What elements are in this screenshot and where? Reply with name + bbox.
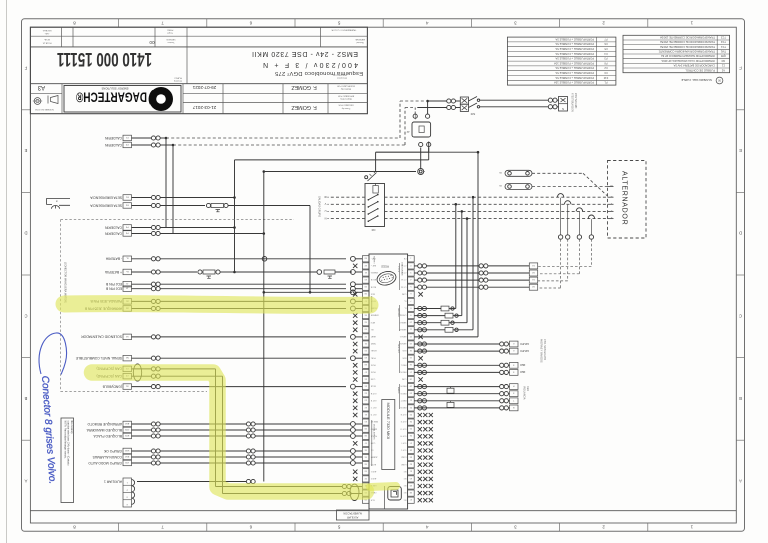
svg-text:BULB: BULB: [370, 385, 376, 387]
svg-text:PORTAFUSIBLE + FUSIBLE 5A: PORTAFUSIBLE + FUSIBLE 5A: [555, 47, 594, 51]
module left terminal 43: [362, 398, 369, 404]
module pin group bracket grupo: [399, 341, 401, 373]
svg-text:EMERG: EMERG: [370, 271, 377, 273]
frame zone tick left: [22, 357, 31, 359]
wire +bateria continuation to second fuse: [235, 271, 318, 273]
alternador pin U: [608, 210, 614, 212]
svg-text:F: F: [24, 66, 27, 71]
wire CALDERIN: [132, 233, 152, 235]
dashed wire PE1 to alternador diagonal: [532, 172, 583, 174]
module right terminal 61: [408, 469, 415, 475]
CAN bus vertical wire 1: [215, 369, 217, 487]
current transformer TC4 lead: [590, 219, 592, 235]
title block outline: [30, 27, 367, 114]
svg-text:MAINS: MAINS: [397, 387, 400, 394]
splice terminals GRUPO OK: [151, 449, 155, 453]
module right terminal not connected X: [418, 335, 422, 339]
wire ARRANQUE REMOTO: [132, 423, 152, 425]
svg-text:AUTO: AUTO: [370, 463, 376, 466]
splice terminals mid BLOQUEO PLACA: [246, 434, 250, 438]
svg-text:Modified by: Modified by: [341, 88, 351, 90]
module side splice SENAL NIVEL COMBUSTIBLE: [351, 356, 356, 361]
module left terminal 45: [362, 384, 369, 390]
module left terminal not connected X: [353, 349, 357, 353]
dashed wire calderin 1 to charger: [166, 137, 400, 139]
module left terminal 61: [362, 270, 369, 276]
red terminal box: [510, 362, 519, 368]
inline connector circles on feed wire: [418, 169, 424, 175]
current transformer TC4 dashed drop: [590, 239, 592, 267]
module left terminal 39: [362, 426, 369, 432]
wire - BATERIA: [132, 258, 152, 260]
red terminal box: [510, 370, 519, 376]
svg-text:B-: B-: [126, 257, 128, 259]
module left terminal 46: [362, 376, 369, 382]
svg-text:COM: COM: [402, 378, 407, 380]
alternador pin V: [608, 203, 614, 205]
module right terminal 5: [408, 284, 415, 290]
svg-text:Version: Version: [168, 41, 175, 43]
schematic bottom boundary line: [30, 510, 736, 512]
wire BLOQUEO PLACA: [132, 435, 152, 437]
splice terminals mid ARRANQUE REMOTO: [246, 422, 250, 426]
current transformer TC1 terminal: [558, 235, 562, 239]
CAN twisted pair loop at module: [350, 484, 359, 500]
svg-text:NOTA: Para realizar Arranque r: NOTA: Para realizar Arranque remoto,: [64, 421, 67, 459]
title block divider A3 column: [61, 84, 63, 114]
splice terminals CALDERIN: [151, 225, 155, 229]
module right terminal 27: [408, 440, 415, 446]
module right terminal 8: [408, 305, 415, 311]
contactor contact U: [368, 213, 370, 215]
svg-text:EDJ PIN B: EDJ PIN B: [105, 282, 122, 286]
title block signature row line 1: [183, 93, 367, 95]
svg-text:CALDERIN: CALDERIN: [105, 143, 122, 147]
svg-text:FUEL: FUEL: [371, 356, 376, 358]
CT terminal box 4: [529, 284, 537, 290]
current transformer TC3 terminal: [577, 235, 581, 239]
module left terminal X marks near CAN: [353, 470, 357, 474]
module right terminal 18: [408, 376, 415, 382]
svg-text:MANIO: MANIO: [370, 427, 377, 430]
svg-text:00: 00: [149, 40, 155, 45]
contactor I30 box: [365, 184, 385, 227]
svg-text:ALTERNADOR: ALTERNADOR: [621, 171, 628, 225]
svg-text:EDJ B: EDJ B: [370, 285, 376, 287]
wire module to CT terminal 4: [414, 286, 417, 288]
wire trunk to module row 292: [264, 291, 352, 293]
module left terminal not connected X: [353, 321, 357, 325]
current transformer TC3 dashed drop: [578, 239, 580, 274]
module left terminal not connected X: [353, 363, 357, 367]
svg-text:RED S: RED S: [400, 392, 407, 394]
wire ARRANQUE REMOTO to module: [255, 423, 350, 425]
feed wire y=159.9 to charger: [235, 159, 429, 161]
svg-text:F. GOMEZ: F. GOMEZ: [291, 84, 317, 90]
module right terminal splice: [418, 328, 422, 332]
wire module to vigilancia terminal S: [414, 393, 499, 395]
wire BLOQUEO MANIOBRA: [132, 429, 152, 431]
DAGARTECH logo black ring: [149, 87, 173, 111]
emergency stop button symbol: [47, 198, 71, 205]
svg-text:COMUN ALARMAS: COMUN ALARMAS: [92, 455, 122, 459]
junction dot +bateria riser: [233, 271, 236, 274]
svg-text:DESCRIPCION:: DESCRIPCION:: [332, 74, 347, 76]
terminal box G1: [123, 384, 132, 390]
wire diode D1 to module: [414, 308, 441, 310]
svg-text:RED T: RED T: [400, 399, 406, 401]
fuse holder F10 on seta wire: [206, 203, 210, 207]
module left terminal not connected X: [353, 377, 357, 381]
title block divider: [186, 27, 188, 83]
title block divider: [61, 27, 63, 47]
current transformer TC3 clamp: [576, 208, 582, 212]
module left terminal 56: [362, 305, 369, 311]
module left terminal not connected X: [353, 328, 357, 332]
splice terminals ARRANQUE JE35 PIN B: [151, 306, 155, 310]
junction dot charger feed: [426, 100, 429, 103]
wire CALDERIN: [132, 137, 152, 139]
svg-text:TRATAMIENTO / COLOR: TRATAMIENTO / COLOR: [331, 28, 356, 31]
charger terminal bottom left: [419, 142, 423, 146]
module left terminal 54: [362, 320, 369, 326]
contactor feed drop: [375, 152, 377, 172]
svg-text:ATESTIGUACION: ATESTIGUACION: [571, 93, 574, 112]
svg-text:DIBUJADO POR: DIBUJADO POR: [338, 104, 354, 107]
wire COMUN ALARMAS to module: [255, 456, 350, 458]
svg-text:Esquema monobloco DGV² 275: Esquema monobloco DGV² 275: [275, 70, 363, 76]
CAN splice terminals at module 1: [342, 484, 346, 488]
svg-text:F10: F10: [603, 76, 608, 80]
wire GRUPO MODO AUTO: [132, 462, 152, 464]
wire module to red terminal y=372.4: [414, 371, 499, 373]
vigilancia terminal box R: [510, 384, 519, 390]
svg-text:OUT C: OUT C: [370, 406, 376, 408]
module left terminal not connected X: [353, 399, 357, 403]
splice terminals ARRANQUE REMOTO: [151, 422, 155, 426]
module left terminal 44: [362, 391, 369, 397]
svg-text:PORTAFUSIBLE + FUSIBLE 5A: PORTAFUSIBLE + FUSIBLE 5A: [555, 71, 594, 75]
module right terminals not connected XXX: [418, 484, 422, 488]
frame zone tick top: [647, 19, 649, 28]
svg-text:W: W: [610, 195, 612, 197]
svg-text:SALIDAS GRUPO: SALIDAS GRUPO: [318, 196, 322, 217]
splice terminals BLOQUEO MANIOBRA: [151, 428, 155, 432]
module left terminal 53: [362, 327, 369, 333]
current transformer TC2 lead: [567, 205, 569, 235]
module left terminal 59: [362, 284, 369, 290]
module right terminal 22: [408, 405, 415, 411]
svg-text:ARRANQUE REMOTO: ARRANQUE REMOTO: [87, 422, 122, 426]
module left terminal 57: [362, 298, 369, 304]
splice terminals + BATERIA: [151, 270, 155, 274]
CT terminal box 2: [529, 270, 537, 276]
svg-text:ALARM: ALARM: [370, 456, 377, 459]
splice terminals - BATERIA: [151, 257, 155, 261]
nota remote start note box: [61, 418, 74, 503]
svg-text:SOLENOID CALENTADOR: SOLENOID CALENTADOR: [81, 335, 122, 339]
wire module to red terminal y=365.3: [414, 364, 499, 366]
auxiliar coil symbol: [132, 480, 135, 505]
wire SOLENOID CALENTADOR: [132, 336, 152, 338]
module left terminal 34: [362, 462, 369, 468]
module right terminal 25: [408, 426, 415, 432]
splice terminals EDJ PIN B: [151, 287, 155, 291]
svg-text:OUT A: OUT A: [370, 392, 376, 395]
svg-text:MODIFICADO POR: MODIFICADO POR: [337, 84, 355, 87]
junction dot calderin 3 riser: [233, 226, 236, 229]
vigilancia terminal box S: [510, 391, 519, 397]
splice terminals CALDERIN: [151, 143, 155, 147]
wire module to vigilancia terminal R: [414, 386, 499, 388]
yellow highlighter CAN route band: [92, 373, 366, 492]
frame zone tick bottom: [294, 523, 296, 531]
svg-text:TM1: TM1: [720, 50, 726, 54]
module right terminal 3: [408, 270, 415, 276]
module left terminal not connected X: [353, 441, 357, 445]
svg-text:CHG AL: CHG AL: [399, 314, 406, 317]
module left terminal 40: [362, 419, 369, 425]
CAN bus bottom wire 2: [223, 493, 343, 495]
crossing connector circle +bateria: [317, 270, 322, 275]
module left terminal not connected X: [353, 292, 357, 296]
wire module to vigilancia terminal T: [414, 400, 499, 402]
module pin group bracket aux left: [371, 420, 373, 466]
module right terminals not connected XXX: [418, 491, 422, 495]
title block header row line: [30, 35, 367, 37]
module right terminal splice: [418, 349, 422, 353]
svg-text:AVERIAS Y MANDOS: AVERIAS Y MANDOS: [540, 339, 543, 363]
svg-text:TEMP: TEMP: [370, 342, 376, 344]
module right terminal 14: [408, 348, 415, 354]
svg-text:CT S2: CT S2: [401, 285, 406, 287]
terminal box B+: [123, 269, 132, 275]
svg-text:RED: RED: [526, 386, 529, 391]
splice terminals mid COMUN ALARMAS: [246, 455, 250, 459]
wire breaker to atestiguacion L: [480, 99, 549, 101]
terminal box C2: [123, 373, 132, 379]
wire BLOQUEO PLACA to module: [255, 435, 350, 437]
svg-text:OUT I: OUT I: [401, 442, 406, 444]
wire SENAL NIVEL COMBUSTIBLE: [132, 357, 152, 359]
yellow highlighter small mark near usb: [370, 486, 396, 487]
title block divider: [154, 27, 156, 47]
frame zone tick top: [382, 19, 384, 28]
svg-text:C: C: [24, 313, 27, 318]
splice terminals CALDERIN: [151, 136, 155, 140]
module right terminal 24: [408, 419, 415, 425]
svg-text:VIGILANCIA: VIGILANCIA: [523, 386, 526, 400]
charger top wires: [414, 108, 416, 115]
svg-text:TC2: TC2: [720, 40, 725, 44]
wire PARADA JE35 PIN B: [132, 300, 152, 302]
component legend table: [623, 35, 730, 72]
svg-text:U: U: [324, 209, 326, 213]
svg-text:PORTAFUSIBLE + FUSIBLE 5A: PORTAFUSIBLE + FUSIBLE 5A: [555, 42, 594, 46]
terminal box S1: [123, 334, 132, 340]
wire module to vigilancia terminal N: [414, 407, 499, 409]
svg-text:F. GOMEZ: F. GOMEZ: [291, 104, 317, 110]
dashed wire PE2 to alternador: [532, 186, 608, 188]
frame zone tick top: [559, 19, 561, 28]
splice terminal module row 282: [351, 290, 356, 295]
alternador pin W: [608, 196, 614, 198]
module right terminal 12: [408, 334, 415, 340]
svg-text:REM ST: REM ST: [370, 420, 378, 422]
module right terminal splice: [418, 370, 422, 374]
svg-text:F: F: [739, 66, 742, 71]
module right terminal not connected X: [418, 292, 422, 296]
module right terminals not connected XXX: [418, 498, 422, 502]
svg-text:LEVEL: LEVEL: [371, 349, 377, 351]
svg-text:COM: COM: [370, 378, 375, 380]
svg-text:RS232: RS232: [381, 265, 389, 268]
terminal box N1: [123, 355, 132, 361]
module pin group bracket red: [399, 384, 401, 409]
wire +bateria to riser: [220, 271, 235, 273]
module side splice (GND)/BULB: [351, 384, 356, 389]
frame zone tick top: [118, 19, 120, 28]
wire breaker to atestiguacion N: [480, 106, 549, 108]
svg-text:SENSING: SENSING: [397, 308, 399, 317]
svg-text:GRUPO: GRUPO: [520, 342, 529, 345]
module right terminal 11: [408, 327, 415, 333]
junction dot calderin 2: [172, 144, 175, 147]
frame zone tick right: [736, 109, 744, 111]
title block big row bottom line: [30, 83, 367, 85]
module right terminal 28: [408, 447, 415, 453]
wire charger to contactor: [428, 142, 430, 153]
wire (GND)/BULB: [132, 386, 152, 388]
current transformer TC2 terminal: [566, 235, 570, 239]
svg-text:DIGITAL INPUTS: DIGITAL INPUTS: [372, 424, 375, 440]
wire + BATERIA: [132, 271, 152, 273]
svg-text:ENERGY SOLUTIONS: ENERGY SOLUTIONS: [101, 86, 128, 90]
svg-text:VERSION: VERSION: [166, 38, 176, 40]
module right terminals not connected XXX: [418, 477, 422, 481]
module right terminal splice: [418, 314, 422, 318]
splice terminals SETA EMERGENCIA: [151, 195, 155, 199]
engine connector boundary dashed bottom: [61, 391, 207, 393]
splice terminals SETA EMERGENCIA: [151, 203, 155, 207]
svg-text:TRANSFORMADOR DE CORRIENTE 150: TRANSFORMADOR DE CORRIENTE 150/5A: [660, 36, 715, 40]
terminal box A04: [123, 421, 132, 427]
svg-text:E: E: [24, 148, 27, 153]
module left terminal 47: [362, 369, 369, 375]
terminal box A1: [123, 299, 132, 305]
title block divider name column: [282, 84, 284, 114]
title block divider: [72, 27, 74, 47]
module right terminal 1: [408, 256, 415, 262]
module left terminal 55: [362, 313, 369, 319]
svg-text:S1R: S1R: [125, 449, 130, 451]
alimentacion auxiliar label box: [336, 510, 369, 520]
feed wire y=152.2 right of contactor: [376, 151, 478, 153]
junction dot trunk top: [263, 170, 266, 173]
module left terminal 50: [362, 348, 369, 354]
terminal box C1: [123, 366, 132, 372]
svg-text:400/230v / 3 F + N: 400/230v / 3 F + N: [263, 61, 358, 68]
svg-text:PORTAFUSIBLE + FUSIBLE 5A: PORTAFUSIBLE + FUSIBLE 5A: [555, 57, 594, 61]
svg-text:S30: S30: [470, 112, 475, 115]
handwritten note pointer curve: [39, 333, 66, 375]
wire module to grupo terminal y=351.1: [414, 350, 499, 352]
svg-text:Drawn by: Drawn by: [342, 107, 350, 109]
module side splice SOLENOID CALENTADOR: [351, 335, 356, 340]
svg-text:OUT G: OUT G: [400, 427, 406, 429]
module right terminal 2: [408, 263, 415, 269]
CAN bus vertical wire 2: [222, 376, 224, 493]
contactor internal fuse: [373, 186, 378, 194]
frame zone tick bottom: [382, 523, 384, 531]
current transformer TC2 dashed drop: [567, 239, 569, 281]
phase bus dashed U to alternator: [385, 210, 608, 212]
riser wire x=234.5 battery positive: [234, 160, 236, 272]
fuse legend table: [507, 37, 616, 85]
title block divider right header: [320, 27, 322, 47]
frame zone tick left: [22, 191, 31, 193]
svg-text:PORTAFUSIBLE + FUSIBLE 15A: PORTAFUSIBLE + FUSIBLE 15A: [554, 81, 594, 85]
junction dot calderin 4 trunk: [263, 232, 266, 235]
svg-text:TC3: TC3: [720, 36, 725, 40]
svg-text:A3: A3: [37, 84, 45, 90]
svg-text:SENS W: SENS W: [399, 328, 407, 330]
phase bus dashed W to alternator: [385, 196, 608, 198]
grupo terminal box: [510, 348, 519, 354]
svg-text:LOAD: LOAD: [401, 463, 407, 466]
CT terminal box 3: [529, 277, 537, 283]
svg-text:NORMAS ISO 2768: NORMAS ISO 2768: [34, 108, 53, 111]
module side splice ARRANQUE JE35 PIN B: [351, 306, 356, 311]
module left terminal 35: [362, 455, 369, 461]
module pin group bracket inputs left: [371, 296, 373, 312]
measurement trunk wire x=461.8: [461, 210, 464, 213]
fuse F4 on vigilancia rows: [447, 388, 454, 393]
module right terminals not connected XXX: [418, 463, 422, 467]
svg-text:CARGADOR DE BATERIA 24V 5A: CARGADOR DE BATERIA 24V 5A: [673, 64, 715, 68]
current transformer TC1 dashed drop: [560, 239, 562, 288]
scan paper edge shadow: [6, 0, 8, 543]
svg-text:PLACA: PLACA: [370, 434, 377, 437]
svg-text:Drawing: Drawing: [173, 80, 182, 83]
svg-text:CALDERIN: CALDERIN: [105, 136, 122, 140]
frame zone tick right: [736, 439, 744, 441]
svg-text:conectar entre borne 104 y bor: conectar entre borne 104 y borne - (Cont…: [67, 421, 70, 467]
module right terminals not connected XXX: [418, 420, 422, 424]
module left terminal not connected X: [353, 413, 357, 417]
svg-text:(GND)/BULB: (GND)/BULB: [102, 384, 122, 388]
splice terminals SOLENOID CALENTADOR: [151, 335, 155, 339]
terminal box E2: [123, 203, 132, 209]
svg-text:OUT J: OUT J: [401, 449, 406, 451]
svg-text:PLANO:: PLANO:: [174, 77, 182, 80]
module right terminals not connected XXX: [418, 456, 422, 460]
svg-text:APROBADO POR: APROBADO POR: [337, 94, 354, 97]
module left terminal 30: [362, 490, 369, 496]
circuit breaker S30 pole 1: [460, 97, 468, 104]
svg-text:CTO. MCB GRUPO: CTO. MCB GRUPO: [543, 339, 546, 360]
module left terminal 31: [362, 483, 369, 489]
vertical wire calderin bus 1: [165, 138, 167, 228]
contactor contact N: [368, 220, 370, 222]
battery negative trunk riser x=263.8: [263, 172, 265, 482]
vigilancia terminal box N: [510, 405, 519, 411]
module pin group bracket sensing: [399, 305, 401, 331]
svg-text:COM: COM: [370, 442, 375, 444]
svg-text:21-03-2017: 21-03-2017: [192, 105, 216, 110]
module left terminal 63: [362, 256, 369, 262]
svg-text:PORTAFUSIBLE + FUSIBLE 5A: PORTAFUSIBLE + FUSIBLE 5A: [555, 66, 594, 70]
